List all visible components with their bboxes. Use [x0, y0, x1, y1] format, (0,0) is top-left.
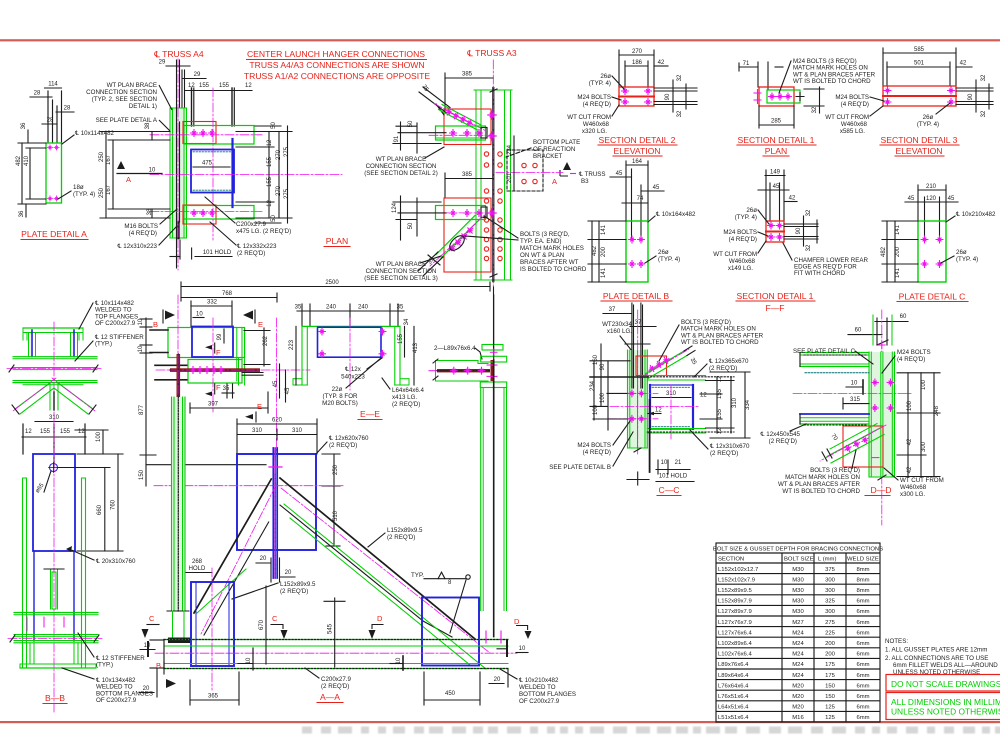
- svg-text:DETAIL 1): DETAIL 1): [129, 103, 157, 110]
- svg-text:x149 LG.: x149 LG.: [728, 265, 753, 272]
- svg-text:175: 175: [825, 662, 836, 668]
- svg-text:M20: M20: [792, 683, 804, 689]
- svg-text:12: 12: [245, 83, 252, 89]
- right dim stack: [907, 373, 909, 477]
- svg-text:6mm: 6mm: [856, 641, 869, 647]
- svg-text:32: 32: [812, 106, 818, 113]
- svg-text:L152x102x7.9: L152x102x7.9: [718, 577, 755, 583]
- svg-text:37: 37: [609, 307, 616, 313]
- svg-text:L89x64x6.4: L89x64x6.4: [718, 673, 749, 679]
- svg-text:B3: B3: [581, 178, 589, 185]
- svg-text:167: 167: [106, 154, 112, 165]
- svg-text:10: 10: [519, 646, 526, 652]
- svg-text:71: 71: [743, 61, 750, 67]
- 29 dims: [166, 65, 190, 67]
- svg-text:26ø: 26ø: [600, 73, 611, 80]
- svg-text:275: 275: [284, 188, 290, 199]
- svg-text:670: 670: [259, 619, 265, 630]
- svg-text:501: 501: [914, 61, 925, 67]
- svg-text:90: 90: [796, 227, 802, 234]
- svg-text:45: 45: [653, 185, 660, 191]
- svg-text:(TYP. 4): (TYP. 4): [658, 256, 680, 263]
- svg-text:12: 12: [717, 375, 723, 382]
- svg-text:L102x89x6.4: L102x89x6.4: [718, 641, 752, 647]
- svg-text:A—A: A—A: [320, 692, 340, 702]
- svg-text:WT IS BOLTED TO CHORD: WT IS BOLTED TO CHORD: [681, 339, 759, 346]
- svg-text:50: 50: [408, 222, 414, 229]
- svg-text:397: 397: [208, 402, 219, 408]
- svg-text:TRUSS A1/A2 CONNECTIONS ARE OP: TRUSS A1/A2 CONNECTIONS ARE OPPOSITE: [244, 71, 431, 81]
- svg-text:155: 155: [60, 429, 71, 435]
- svg-text:L89x76x6.4: L89x76x6.4: [718, 662, 749, 668]
- svg-text:SECTION DETAIL 3: SECTION DETAIL 3: [881, 135, 958, 145]
- svg-text:ALL DIMENSIONS IN MILLIMETE: ALL DIMENSIONS IN MILLIMETE: [891, 697, 1000, 707]
- svg-text:(SEE SECTION DETAIL 2): (SEE SECTION DETAIL 2): [364, 170, 438, 177]
- svg-text:12: 12: [267, 139, 273, 146]
- svg-text:29: 29: [159, 60, 166, 66]
- svg-text:x475 LG. (2 REQ'D): x475 LG. (2 REQ'D): [236, 228, 291, 235]
- svg-text:150: 150: [825, 683, 836, 689]
- svg-text:M30: M30: [792, 609, 804, 615]
- svg-text:10: 10: [661, 460, 668, 466]
- bottom flange strip: [647, 428, 705, 430]
- bottom cap: [29, 643, 31, 664]
- svg-text:M24: M24: [792, 630, 804, 636]
- svg-text:WT CUT FROM: WT CUT FROM: [567, 114, 611, 121]
- 262 / 99 dims: [263, 328, 265, 366]
- svg-text:(TYP.): (TYP.): [96, 662, 113, 669]
- svg-text:101 HOLD: 101 HOLD: [203, 250, 232, 256]
- svg-text:50: 50: [271, 122, 277, 129]
- svg-text:BOLT SIZE: BOLT SIZE: [784, 557, 814, 563]
- svg-text:(2 REQ'D): (2 REQ'D): [329, 442, 357, 449]
- svg-text:HOLD: HOLD: [189, 566, 206, 572]
- beam chord: [164, 639, 508, 641]
- svg-text:334: 334: [745, 399, 751, 410]
- svg-text:(TYP. 4): (TYP. 4): [735, 214, 757, 221]
- svg-text:26ø: 26ø: [956, 249, 967, 256]
- lower red rect: [444, 198, 491, 272]
- svg-text:42: 42: [658, 60, 665, 66]
- svg-text:285: 285: [771, 119, 782, 125]
- svg-text:186: 186: [632, 60, 643, 66]
- svg-text:L (mm): L (mm): [818, 557, 836, 563]
- svg-text:6mm: 6mm: [856, 673, 869, 679]
- svg-text:2. ALL CONNECTIONS ARE TO USE: 2. ALL CONNECTIONS ARE TO USE: [885, 655, 988, 662]
- svg-text:6mm: 6mm: [856, 652, 869, 658]
- svg-text:℄ 12x620x760: ℄ 12x620x760: [328, 435, 369, 442]
- svg-text:300: 300: [825, 577, 836, 583]
- svg-text:(TYP. 4): (TYP. 4): [589, 80, 611, 87]
- svg-text:91: 91: [394, 135, 400, 142]
- svg-text:300: 300: [825, 588, 836, 594]
- svg-text:275: 275: [825, 620, 836, 626]
- svg-text:413: 413: [413, 342, 419, 353]
- B-B detail: [8, 415, 153, 712]
- svg-text:W460x68: W460x68: [583, 121, 610, 128]
- svg-text:8mm: 8mm: [856, 588, 869, 594]
- svg-text:M30: M30: [792, 577, 804, 583]
- left blue box: [191, 582, 234, 666]
- svg-text:585: 585: [914, 47, 925, 53]
- border bottom red line: [0, 721, 1000, 723]
- svg-text:F—F: F—F: [765, 303, 784, 313]
- E-E detail: [289, 304, 425, 420]
- svg-text:375: 375: [825, 567, 836, 573]
- blue box: [650, 385, 693, 429]
- svg-text:100: 100: [921, 379, 927, 390]
- svg-text:12: 12: [700, 393, 707, 399]
- svg-text:35: 35: [420, 84, 429, 93]
- svg-text:6mm FILLET WELDS ALL—AROUND: 6mm FILLET WELDS ALL—AROUND: [893, 662, 998, 669]
- svg-text:660: 660: [97, 504, 103, 515]
- svg-text:℄ TRUSS A4: ℄ TRUSS A4: [153, 49, 204, 59]
- svg-text:141: 141: [895, 267, 901, 278]
- svg-text:L152x89x7.9: L152x89x7.9: [718, 599, 752, 605]
- svg-text:L64x64x6.4: L64x64x6.4: [392, 387, 425, 394]
- svg-text:L127x76x7.9: L127x76x7.9: [718, 620, 752, 626]
- svg-text:B—B: B—B: [45, 693, 65, 703]
- svg-text:SECTION: SECTION: [718, 557, 744, 563]
- svg-text:275: 275: [284, 146, 290, 157]
- svg-text:250: 250: [333, 464, 339, 475]
- section A marker plan: [117, 161, 125, 169]
- svg-text:70: 70: [829, 433, 838, 442]
- svg-text:PLATE DETAIL C: PLATE DETAIL C: [899, 292, 966, 302]
- svg-text:250: 250: [99, 151, 105, 162]
- svg-text:50: 50: [271, 215, 277, 222]
- svg-text:114: 114: [48, 82, 58, 88]
- upper red rect: [444, 109, 491, 145]
- red rect top: [183, 122, 216, 144]
- svg-text:PLAN: PLAN: [765, 146, 787, 156]
- svg-text:E: E: [257, 402, 262, 411]
- svg-text:BOLT SIZE & GUSSET DEPTH FOR B: BOLT SIZE & GUSSET DEPTH FOR BRACING CON…: [713, 547, 883, 553]
- svg-text:(2 REQ'D): (2 REQ'D): [710, 450, 738, 457]
- svg-text:18ø: 18ø: [73, 184, 84, 191]
- magenta CL + bolts: [793, 393, 913, 395]
- green column: [628, 350, 648, 448]
- svg-text:8: 8: [448, 580, 452, 586]
- svg-text:℄ 10x210x482: ℄ 10x210x482: [518, 677, 559, 684]
- svg-text:WELD SIZE: WELD SIZE: [847, 557, 879, 563]
- svg-text:120: 120: [926, 196, 937, 202]
- 620/310 dims above blue box: [237, 423, 317, 425]
- left junction detail (top of B-B): [7, 300, 144, 416]
- web verticals: [31, 330, 33, 357]
- svg-text:620: 620: [272, 418, 283, 424]
- 475 dim: [193, 166, 230, 168]
- left brace: [194, 479, 271, 613]
- svg-text:26ø: 26ø: [658, 249, 669, 256]
- svg-text:1. ALL GUSSET PLATES ARE 12mm: 1. ALL GUSSET PLATES ARE 12mm: [885, 647, 987, 654]
- svg-text:WT CUT FROM: WT CUT FROM: [713, 251, 757, 258]
- svg-text:TYP. EA. END): TYP. EA. END): [520, 238, 562, 245]
- svg-text:℄ 12x: ℄ 12x: [344, 366, 362, 373]
- svg-text:TRUSS A4/A3 CONNECTIONS ARE SH: TRUSS A4/A3 CONNECTIONS ARE SHOWN: [249, 60, 424, 70]
- right dim stack: [716, 377, 718, 433]
- svg-text:D: D: [377, 614, 383, 623]
- vertical leg: [491, 360, 494, 381]
- svg-text:WT CUT FROM: WT CUT FROM: [900, 477, 944, 484]
- svg-text:100: 100: [907, 400, 913, 411]
- truss A3 elevation detail: [364, 60, 587, 286]
- svg-text:35: 35: [689, 357, 698, 366]
- chord hole circles: [484, 152, 502, 261]
- black stubs left: [150, 329, 168, 331]
- svg-text:M16: M16: [792, 715, 804, 721]
- svg-text:℄ 20x310x760: ℄ 20x310x760: [95, 558, 136, 565]
- svg-text:M24 BOLTS: M24 BOLTS: [577, 94, 611, 101]
- svg-text:21: 21: [675, 460, 682, 466]
- svg-text:OF C200x27.9: OF C200x27.9: [519, 698, 560, 705]
- svg-text:200: 200: [825, 652, 836, 658]
- svg-text:385: 385: [462, 72, 473, 78]
- svg-text:6mm: 6mm: [856, 599, 869, 605]
- svg-text:℄ 12x310x223: ℄ 12x310x223: [117, 243, 158, 250]
- notes: [885, 638, 998, 676]
- svg-text:234: 234: [590, 380, 596, 391]
- svg-text:482: 482: [592, 245, 598, 256]
- svg-text:32: 32: [806, 244, 812, 251]
- C-C detail: [549, 303, 763, 496]
- svg-text:SEE PLATE DETAIL C: SEE PLATE DETAIL C: [793, 348, 856, 355]
- lower diagonals: [15, 383, 50, 409]
- svg-text:6mm: 6mm: [856, 705, 869, 711]
- hanger verticals: [480, 388, 482, 611]
- svg-text:M20: M20: [792, 705, 804, 711]
- svg-text:365: 365: [208, 694, 219, 700]
- svg-text:6mm: 6mm: [856, 609, 869, 615]
- svg-text:6mm: 6mm: [856, 620, 869, 626]
- svg-text:OF C200x27.9: OF C200x27.9: [96, 697, 137, 704]
- svg-text:36: 36: [19, 210, 25, 217]
- svg-text:x320 LG.: x320 LG.: [582, 128, 607, 135]
- svg-text:M30: M30: [792, 599, 804, 605]
- svg-text:ON WT & PLAN: ON WT & PLAN: [520, 252, 564, 259]
- svg-text:100: 100: [600, 392, 606, 403]
- svg-text:M24 BOLTS: M24 BOLTS: [577, 442, 611, 449]
- svg-text:WT230x34: WT230x34: [602, 321, 632, 328]
- svg-text:WT & PLAN BRACES AFTER: WT & PLAN BRACES AFTER: [778, 481, 861, 488]
- svg-text:E: E: [258, 320, 263, 329]
- hanger bottom magenta bolts: [486, 631, 501, 643]
- svg-text:(2 REQ'D): (2 REQ'D): [387, 534, 415, 541]
- left beams: bottom member: [800, 413, 869, 415]
- svg-text:164: 164: [632, 159, 643, 165]
- svg-text:L152x89x9.5: L152x89x9.5: [280, 581, 316, 588]
- plate detail A: [16, 82, 115, 240]
- svg-text:8mm: 8mm: [856, 567, 869, 573]
- svg-text:SECTION DETAIL 1: SECTION DETAIL 1: [737, 291, 814, 301]
- svg-text:(TYP. 4): (TYP. 4): [956, 256, 978, 263]
- magenta CLs: [177, 295, 179, 460]
- svg-text:L152x102x12.7: L152x102x12.7: [718, 567, 758, 573]
- svg-text:M24 BOLTS: M24 BOLTS: [723, 229, 757, 236]
- red heading block: [244, 49, 431, 81]
- svg-text:L127x76x6.4: L127x76x6.4: [718, 630, 752, 636]
- svg-text:310: 310: [252, 428, 263, 434]
- svg-text:WT IS BOLTED TO CHORD: WT IS BOLTED TO CHORD: [782, 488, 860, 495]
- svg-text:OF C200x27.9: OF C200x27.9: [95, 320, 136, 327]
- svg-text:90: 90: [600, 363, 606, 370]
- svg-text:C200x27.9: C200x27.9: [321, 676, 351, 683]
- svg-text:FIT WITH CHORD: FIT WITH CHORD: [794, 270, 846, 277]
- svg-text:545: 545: [328, 623, 334, 634]
- svg-text:200: 200: [825, 641, 836, 647]
- svg-text:WT PLAN BRACE: WT PLAN BRACE: [107, 82, 157, 89]
- svg-text:45: 45: [908, 196, 915, 202]
- bottom chord bands: [14, 612, 98, 614]
- svg-text:OF REACTION: OF REACTION: [533, 146, 575, 153]
- svg-text:141: 141: [895, 224, 901, 235]
- svg-text:155: 155: [267, 176, 273, 187]
- svg-text:35: 35: [295, 305, 302, 311]
- svg-text:268: 268: [192, 559, 203, 565]
- svg-text:BRACES AFTER WT: BRACES AFTER WT: [520, 259, 579, 266]
- svg-text:(TYP. 4): (TYP. 4): [917, 121, 939, 128]
- svg-text:2—L89x76x6.4: 2—L89x76x6.4: [434, 345, 476, 352]
- vertical dim chain 877: [138, 318, 266, 486]
- svg-text:L152x89x9.5: L152x89x9.5: [387, 527, 423, 534]
- svg-text:300: 300: [921, 441, 927, 452]
- lower horizontal WT: [392, 196, 496, 240]
- svg-text:6mm: 6mm: [856, 694, 869, 700]
- svg-text:385: 385: [462, 172, 473, 178]
- svg-text:510: 510: [333, 510, 339, 521]
- svg-text:6mm: 6mm: [856, 715, 869, 721]
- right dim stack: [268, 132, 270, 219]
- top stub: [872, 315, 874, 345]
- svg-text:22ø: 22ø: [332, 386, 343, 393]
- plate detail C: [881, 184, 996, 302]
- lower diagonal brace: [418, 213, 487, 276]
- diagonal brace up-right: [645, 351, 684, 374]
- svg-text:201: 201: [507, 172, 513, 183]
- svg-text:100: 100: [593, 404, 599, 415]
- 45 45 dims: [279, 364, 281, 398]
- upper diagonal brace: [419, 84, 487, 132]
- svg-text:155: 155: [267, 156, 273, 167]
- svg-text:332: 332: [207, 300, 218, 306]
- svg-text:L102x76x6.4: L102x76x6.4: [718, 652, 752, 658]
- svg-text:90: 90: [968, 93, 974, 100]
- svg-text:234: 234: [507, 144, 513, 155]
- svg-text:(4 REQ'D): (4 REQ'D): [897, 356, 925, 363]
- svg-text:UNLESS NOTED OTHERWISE: UNLESS NOTED OTHERWISE: [891, 707, 1000, 717]
- svg-text:F: F: [216, 383, 221, 392]
- svg-text:32: 32: [981, 110, 987, 117]
- svg-text:x585 LG.: x585 LG.: [840, 128, 865, 135]
- svg-text:325: 325: [825, 599, 836, 605]
- svg-text:(4 REQ'D): (4 REQ'D): [729, 236, 757, 243]
- svg-text:225: 225: [825, 630, 836, 636]
- section detail 1 F-F: [713, 170, 868, 314]
- svg-text:NOTES:: NOTES:: [885, 638, 908, 645]
- svg-text:124: 124: [392, 202, 398, 213]
- svg-text:149: 149: [770, 170, 781, 176]
- svg-text:10: 10: [196, 312, 203, 318]
- svg-text:PLATE DETAIL A: PLATE DETAIL A: [21, 229, 87, 239]
- gusset green outline: [168, 328, 245, 358]
- svg-text:26ø: 26ø: [923, 114, 934, 121]
- svg-text:℄ TRUSS: ℄ TRUSS: [578, 171, 606, 178]
- svg-text:x413 LG.: x413 LG.: [392, 394, 417, 401]
- svg-text:(TYP.): (TYP.): [95, 341, 112, 348]
- svg-text:26ø: 26ø: [746, 207, 757, 214]
- svg-text:150: 150: [139, 469, 145, 480]
- svg-text:760: 760: [111, 499, 117, 510]
- svg-text:42: 42: [789, 196, 796, 202]
- svg-text:C200x27.9: C200x27.9: [236, 221, 266, 228]
- svg-text:45: 45: [285, 387, 291, 394]
- svg-text:L76x64x6.4: L76x64x6.4: [718, 683, 749, 689]
- svg-text:(TYP. 4): (TYP. 4): [73, 191, 95, 198]
- svg-text:WT CUT FROM: WT CUT FROM: [825, 114, 869, 121]
- svg-text:310: 310: [732, 397, 738, 408]
- blue plate in plan: [192, 327, 233, 358]
- svg-text:(2 REQ'D): (2 REQ'D): [709, 365, 737, 372]
- svg-text:20: 20: [494, 677, 501, 683]
- svg-text:29: 29: [194, 72, 201, 78]
- svg-text:125: 125: [825, 715, 836, 721]
- svg-text:x300 LG.: x300 LG.: [900, 491, 925, 498]
- svg-text:M24: M24: [792, 673, 804, 679]
- svg-text:℄ 10x210x482: ℄ 10x210x482: [955, 211, 996, 218]
- svg-text:167: 167: [106, 184, 112, 195]
- svg-text:SECTION DETAIL 2: SECTION DETAIL 2: [599, 135, 676, 145]
- svg-text:155: 155: [199, 83, 210, 89]
- svg-text:BOLTS (3 REQ'D,: BOLTS (3 REQ'D,: [520, 231, 570, 238]
- svg-text:155: 155: [717, 408, 723, 419]
- all dimensions box: [886, 693, 1000, 720]
- svg-text:155: 155: [398, 333, 404, 344]
- svg-text:60: 60: [855, 328, 862, 334]
- svg-text:M20 BOLTS): M20 BOLTS): [322, 400, 358, 407]
- svg-text:32: 32: [677, 110, 683, 117]
- svg-text:C: C: [149, 614, 155, 623]
- svg-text:8mm: 8mm: [856, 577, 869, 583]
- F markers: [205, 344, 210, 349]
- 365 / 450 dims: [190, 699, 239, 701]
- upper horizontal WT: [393, 111, 496, 153]
- svg-text:315: 315: [850, 397, 861, 403]
- frame: [302, 325, 400, 327]
- svg-text:M24 BOLTS: M24 BOLTS: [897, 349, 931, 356]
- blue channel box: [191, 150, 234, 193]
- big dims 2500 / 768: [181, 280, 494, 356]
- svg-text:100: 100: [96, 431, 102, 442]
- svg-text:ELEVATION: ELEVATION: [614, 146, 661, 156]
- svg-text:45: 45: [273, 380, 279, 387]
- svg-text:248: 248: [934, 405, 940, 416]
- svg-text:MATCH MARK HOLES ON: MATCH MARK HOLES ON: [785, 474, 860, 481]
- svg-text:WT PLAN BRACE: WT PLAN BRACE: [376, 261, 426, 268]
- svg-text:D: D: [514, 617, 520, 626]
- svg-text:210: 210: [926, 184, 937, 190]
- red rect bottom: [183, 205, 216, 224]
- section detail 2 elevation: [567, 49, 697, 156]
- svg-text:74: 74: [637, 196, 644, 202]
- svg-text:6mm: 6mm: [856, 683, 869, 689]
- svg-text:32: 32: [806, 209, 812, 216]
- svg-text:(TYP. 8 FOR: (TYP. 8 FOR: [323, 393, 358, 400]
- dims sides: [295, 326, 297, 385]
- svg-text:L51x51x6.4: L51x51x6.4: [718, 715, 749, 721]
- hole circle: [50, 464, 58, 472]
- svg-text:20: 20: [285, 570, 292, 576]
- svg-text:℄ 12x310x670: ℄ 12x310x670: [709, 443, 750, 450]
